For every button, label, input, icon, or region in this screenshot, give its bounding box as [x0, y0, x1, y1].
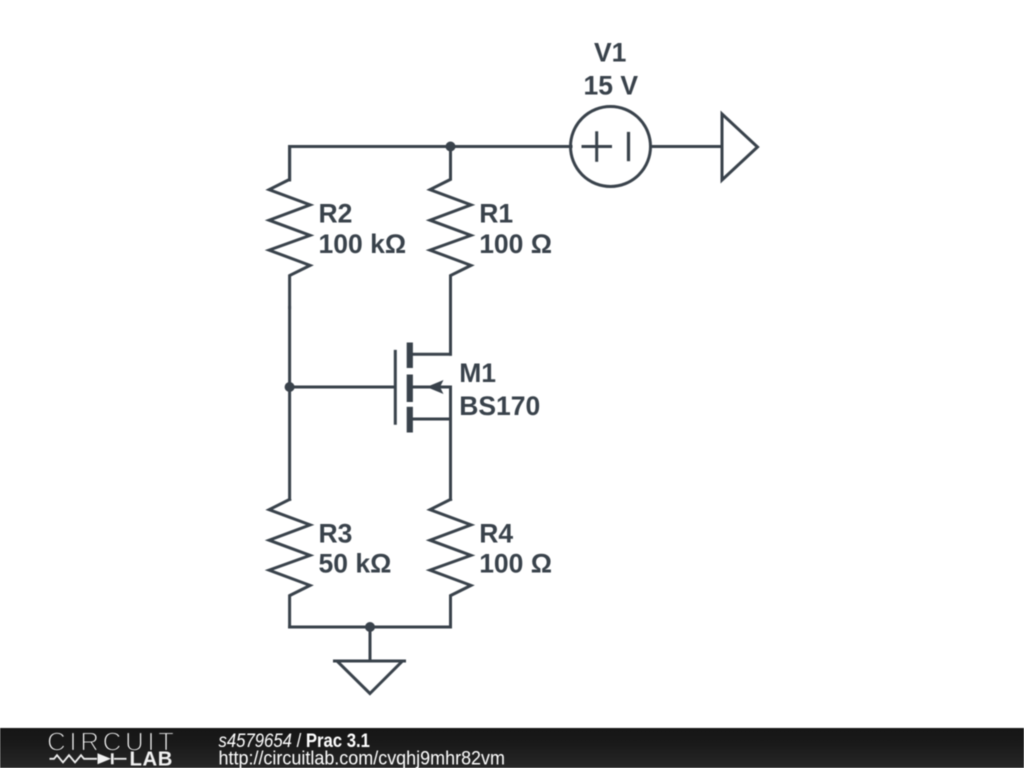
svg-text:LAB: LAB	[130, 749, 173, 768]
wire top rail	[290, 147, 451, 181]
wire bottom rail	[290, 626, 451, 629]
wire gate	[290, 386, 394, 389]
node junction top	[446, 142, 456, 152]
wire source down	[449, 387, 452, 499]
CircuitLab logo mini diode	[98, 753, 114, 764]
transistor M1	[395, 343, 450, 433]
node gate junction	[285, 382, 295, 392]
resistor R3	[269, 499, 310, 627]
wire drain	[449, 308, 452, 355]
wire left column	[288, 308, 291, 500]
voltage source V1	[571, 107, 651, 187]
resistor R4	[430, 499, 471, 627]
output flag	[722, 114, 758, 180]
svg-text:http://circuitlab.com/cvqhj9mh: http://circuitlab.com/cvqhj9mhr82vm	[219, 749, 506, 768]
wire V1 to output flag	[651, 145, 723, 148]
CircuitLab logo mini resistor	[50, 755, 98, 762]
resistor R1	[430, 147, 471, 308]
wire junction to V1	[451, 145, 572, 148]
ground	[335, 627, 405, 694]
node ground junction	[365, 622, 375, 632]
resistor R2	[269, 147, 310, 308]
CircuitLab logo mini wire	[114, 758, 127, 760]
footer bar	[0, 728, 1024, 768]
